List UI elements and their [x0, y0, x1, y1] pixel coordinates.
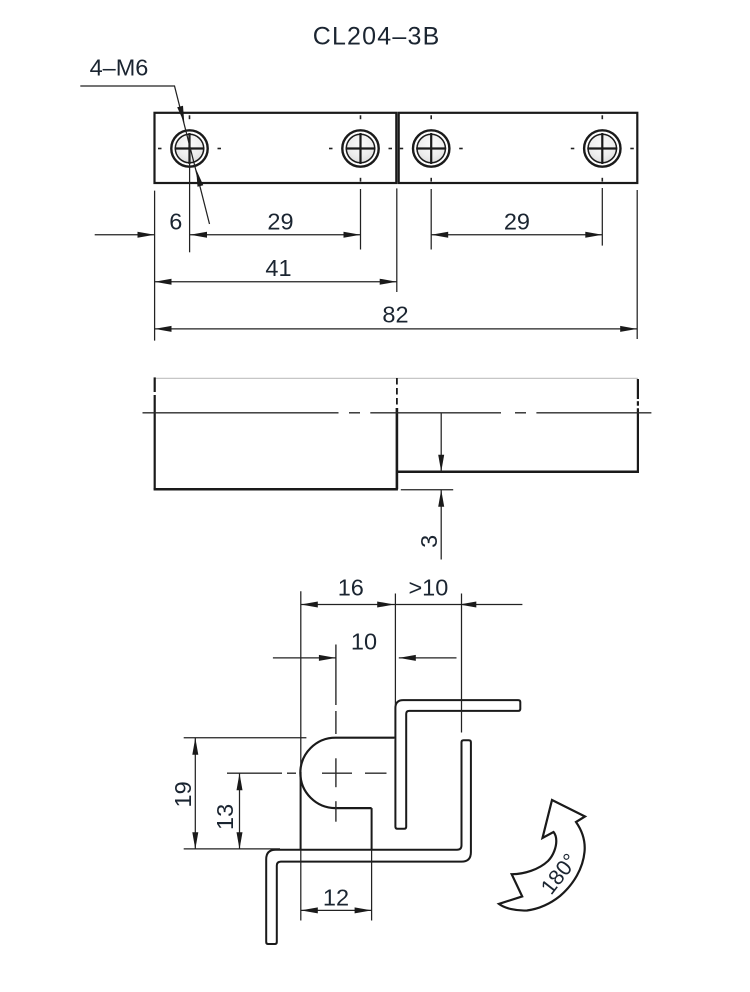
dim 16 and >10 line: [301, 604, 523, 606]
plate left edge extension upper: [300, 591, 302, 774]
dim 82 arrows: [155, 326, 172, 332]
rotation arrow 180: [499, 800, 585, 911]
svg-text:CL204–3B: CL204–3B: [313, 23, 441, 51]
plate left edge extension lower: [300, 850, 302, 921]
dim 41 line: [155, 281, 397, 283]
plate left edge profile (thick): [300, 772, 302, 850]
faint top edge: [155, 377, 638, 379]
svg-text:41: 41: [265, 255, 291, 281]
hole 3 centerline marks: [400, 115, 463, 181]
dim >10 outside arrow: [459, 602, 476, 608]
dim 12 arrows: [301, 907, 318, 913]
junction dashed upper: [396, 378, 398, 408]
svg-text:82: 82: [382, 302, 408, 328]
dim 6 tail line: [95, 234, 155, 236]
left plate left edge: [154, 377, 156, 489]
dim 3 upper arrow: [438, 455, 444, 472]
extension line knuckle top: [184, 737, 307, 739]
dim 29 left line: [190, 234, 361, 236]
leader line 4-M6: [80, 86, 209, 224]
svg-text:>10: >10: [408, 574, 448, 600]
dim 3 lower arrow: [438, 490, 444, 507]
right leaf bent strip: [395, 700, 520, 829]
knuckle barrel: [300, 738, 395, 808]
svg-text:3: 3: [416, 535, 442, 548]
dim 3 upper line: [440, 414, 442, 472]
svg-text:19: 19: [170, 781, 196, 807]
dim 29 left arrows: [190, 232, 207, 238]
svg-text:12: 12: [323, 885, 349, 911]
right plate bottom edge: [397, 471, 639, 474]
hole 1 extended centerline (for dim 6): [189, 133, 191, 252]
dim 12 line: [301, 909, 372, 911]
plate right lower edge extension: [371, 850, 373, 921]
dim 10 right tail: [399, 657, 457, 659]
dim 13 line: [239, 773, 241, 849]
dim 16 arrows: [301, 602, 318, 608]
svg-text:13: 13: [212, 804, 238, 830]
left plate bottom edge: [154, 488, 398, 491]
dim 19 arrows: [192, 738, 198, 755]
hole 4: [584, 130, 620, 166]
dim 29 right line: [431, 234, 602, 236]
extension line right strip left face: [394, 594, 396, 706]
dim 29 right arrows: [431, 232, 448, 238]
dim 19 line: [194, 738, 196, 850]
extension of left plate bottom: [401, 489, 453, 491]
dim 82 line: [155, 328, 638, 330]
dim 10 left tail: [273, 657, 336, 659]
hole 3: [413, 130, 449, 166]
dim 10 right arrow: [399, 655, 416, 661]
dim 3 lower line: [440, 490, 442, 560]
junction solid lower: [396, 408, 399, 489]
hole 2 centerline marks: [329, 115, 392, 181]
extension line plate junction: [396, 188, 398, 292]
svg-text:16: 16: [338, 574, 364, 600]
extension line flange top left: [184, 848, 280, 850]
hole 1 centerline marks: [158, 115, 221, 148]
hole 4 centerline marks: [571, 115, 634, 181]
left leaf bent strip: [266, 740, 471, 944]
knuckle horizontal centerline: [227, 772, 387, 774]
svg-text:29: 29: [504, 209, 530, 235]
knuckle vertical centerline: [335, 645, 337, 822]
leader arrowhead upper: [177, 106, 184, 123]
plate 2 outline: [399, 113, 638, 183]
svg-text:10: 10: [351, 628, 377, 654]
plate right lower edge profile (thick): [371, 808, 373, 849]
leader arrowhead lower: [196, 170, 203, 187]
dim 13 arrows: [237, 773, 243, 790]
dim 41 arrows: [155, 279, 172, 285]
hole 2: [342, 130, 378, 166]
plate 1 outline: [155, 113, 397, 183]
dim 6 arrow: [138, 232, 155, 238]
extension line second strip left face: [461, 594, 463, 733]
right plate right edge: [637, 379, 639, 472]
extension line hole2: [360, 189, 362, 250]
svg-text:29: 29: [267, 209, 293, 235]
extension line hole3: [430, 189, 432, 250]
extension line plate1 left edge: [154, 191, 156, 341]
extension line hole4: [601, 188, 603, 246]
svg-text:4–M6: 4–M6: [90, 55, 149, 81]
extension line plate2 right edge: [636, 190, 638, 339]
dim 10 left arrow: [319, 655, 336, 661]
svg-text:6: 6: [169, 209, 182, 235]
middle view centerline: [143, 412, 652, 414]
hole 1: [171, 130, 207, 166]
